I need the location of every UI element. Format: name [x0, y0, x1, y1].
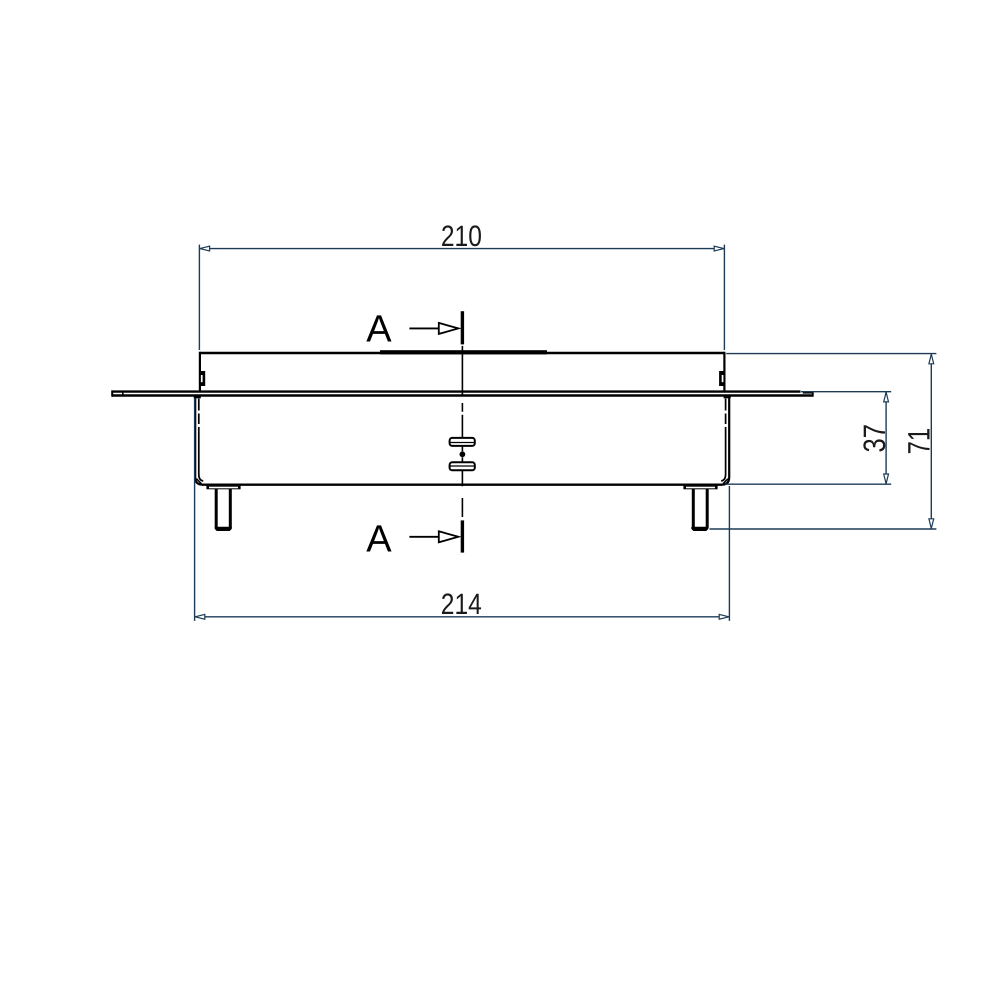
lower left corner hatch — [196, 479, 201, 484]
upper body right wall — [723, 352, 725, 392]
dim 214 arrow left — [195, 614, 205, 619]
dim 71 extension bottom — [710, 528, 937, 530]
left foot cap — [215, 527, 232, 531]
left leg left line — [215, 489, 218, 528]
section arrow top shaft — [409, 327, 438, 329]
section line bottom — [461, 520, 464, 552]
dim 214 arrow right — [719, 614, 729, 619]
dim 37 extension top — [801, 391, 891, 393]
right leg right line — [706, 489, 709, 528]
center fitting upper — [450, 438, 475, 446]
section arrow bottom shaft — [409, 536, 438, 538]
flange right end cap — [812, 392, 814, 397]
right foot cap — [691, 527, 708, 531]
dim 37 arrow bottom — [884, 474, 889, 484]
dim 37 extension bottom — [725, 483, 891, 485]
dim 210 extension left — [198, 245, 200, 350]
dim 210 arrow left — [200, 246, 210, 251]
dim 210 arrow right — [714, 246, 724, 251]
flange bottom line — [112, 394, 813, 396]
dim 210 line — [199, 248, 724, 250]
lower body right inner wall — [721, 399, 725, 481]
svg-text:214: 214 — [441, 588, 482, 621]
lower body right outer wall — [722, 397, 729, 484]
dim 71 arrow top — [929, 354, 934, 364]
dim 37 line — [885, 392, 887, 485]
lower body left outer wall — [195, 397, 202, 484]
center dot — [460, 451, 466, 457]
right foot bracket — [683, 486, 717, 490]
svg-text:71: 71 — [901, 428, 936, 455]
centerline dash segments — [461, 311, 463, 517]
center fitting upper midline — [451, 442, 475, 444]
dim 214 line — [195, 616, 730, 618]
left clip tab — [200, 371, 205, 386]
right leg left line — [692, 489, 695, 528]
svg-text:37: 37 — [857, 424, 892, 453]
section arrow top head — [439, 323, 459, 334]
dim 37 arrow top — [884, 392, 889, 402]
center fitting lower — [450, 462, 475, 470]
body top edge — [199, 352, 724, 355]
dim 71 line — [930, 354, 932, 529]
section line top — [461, 311, 464, 344]
flange left tick — [122, 392, 124, 396]
flange left end cap — [111, 390, 113, 396]
lower right corner hatch — [723, 479, 728, 484]
left leg right line — [229, 489, 232, 528]
dim 71 arrow bottom — [929, 519, 934, 529]
right clip tab — [719, 371, 724, 386]
flange top line — [112, 390, 801, 392]
lower body left wall top cap — [194, 396, 201, 398]
flange end segment right — [803, 392, 813, 394]
dim 214 extension left — [194, 398, 196, 621]
svg-text:210: 210 — [441, 220, 482, 253]
lower body right wall top cap — [724, 396, 731, 398]
body bottom edge — [202, 484, 722, 486]
upper body left wall — [199, 352, 201, 392]
top lip thick seam — [380, 350, 547, 354]
center fitting lower midline — [451, 465, 475, 467]
svg-text:A: A — [366, 518, 392, 560]
dim 210 extension right — [723, 245, 725, 350]
lower body left inner wall — [199, 399, 203, 481]
left foot bracket — [206, 486, 240, 490]
dim 71 extension top — [726, 353, 936, 355]
svg-text:A: A — [366, 308, 392, 350]
section arrow bottom head — [439, 531, 459, 542]
dim 214 extension right — [728, 486, 730, 621]
